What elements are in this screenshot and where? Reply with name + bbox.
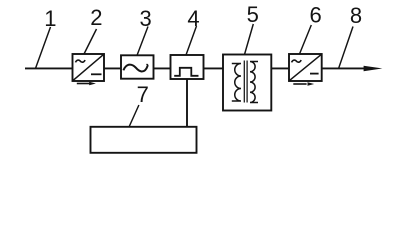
- svg-text:4: 4: [187, 6, 199, 31]
- leader line 5: [245, 24, 254, 55]
- wire block4-block5: [204, 67, 224, 69]
- leader line 4: [186, 26, 197, 55]
- control arrow of block 2: [77, 82, 96, 86]
- diagonal: [289, 54, 321, 80]
- leader line 1: [36, 27, 51, 68]
- AC tilde: [76, 60, 86, 62]
- wire block3-block4: [154, 67, 171, 69]
- wire block5-block6: [271, 67, 289, 69]
- wire block4 to block7 vertical: [186, 79, 188, 127]
- svg-text:1: 1: [44, 6, 56, 31]
- inverter U6 (block 6): [289, 54, 322, 81]
- svg-text:8: 8: [350, 3, 362, 28]
- control arrow of block 6: [293, 82, 314, 86]
- core line right: [246, 61, 248, 103]
- wave symbol: [123, 65, 147, 72]
- wire block2-block3: [104, 67, 121, 69]
- wire input segment: [25, 67, 73, 69]
- wire output segment: [322, 67, 366, 69]
- DC dash: [91, 73, 102, 75]
- control unit box (block 7): [91, 127, 197, 153]
- leader line 8: [339, 27, 353, 69]
- leader line 7: [129, 105, 139, 127]
- diagonal: [73, 54, 104, 80]
- filter U3 (block 3): [121, 55, 154, 78]
- svg-text:6: 6: [309, 3, 321, 28]
- DC dash: [310, 73, 319, 75]
- output arrowhead: [364, 66, 383, 72]
- secondary winding: [250, 62, 258, 103]
- pulse generator U4 (block 4): [171, 55, 204, 79]
- pulse symbol: [174, 68, 198, 76]
- svg-text:3: 3: [139, 6, 151, 31]
- transformer T5 (block 5): [223, 55, 271, 111]
- primary winding: [232, 64, 241, 102]
- core line left: [243, 61, 245, 103]
- rectifier U2 (block 2): [73, 54, 105, 81]
- svg-text:5: 5: [247, 2, 259, 27]
- leader line 3: [137, 27, 148, 56]
- svg-text:2: 2: [90, 5, 102, 30]
- leader line 6: [300, 25, 312, 54]
- AC tilde: [292, 60, 302, 62]
- svg-text:7: 7: [137, 82, 149, 107]
- leader line 2: [84, 29, 97, 54]
